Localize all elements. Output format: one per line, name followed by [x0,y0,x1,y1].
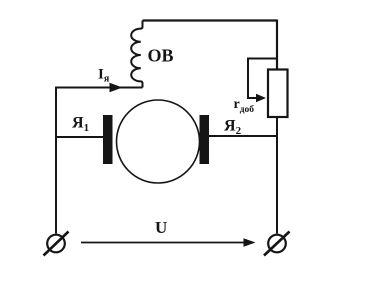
brush Я1 (left brush bar) [103,115,113,164]
wire right rail lower (resistor bottom to right terminal) [276,117,278,234]
arrow Iя (current arrowhead on wire) [110,83,123,92]
wire rheostat tap bracket (rail to wiper) [248,59,277,99]
motor armature (circle) [117,100,200,183]
arrow U (voltage arrow between terminals) [81,242,247,244]
wire left rail vertical [55,87,57,234]
brush Я2 (right brush bar) [200,115,210,164]
wire Iя horizontal (left rail to coil bottom) [56,87,143,89]
wire Я2 (right brush to right rail) [208,135,278,137]
resistor rдоб (adjustable, vertical rectangle) [268,70,288,118]
svg-text:ОВ: ОВ [148,46,174,66]
wire right rail upper (top corner down to resistor top) [276,20,278,71]
inductor OB (field winding, 4 left-bulging arcs) [131,21,142,88]
wire Я1 (left rail to left brush) [56,136,104,138]
wire top horizontal (coil top to right rail) [143,19,278,21]
terminal left (circle with slash) [47,235,65,253]
arrow rheostat wiper [256,94,266,102]
svg-text:U: U [155,218,167,237]
terminal right (circle with slash) [268,235,286,253]
